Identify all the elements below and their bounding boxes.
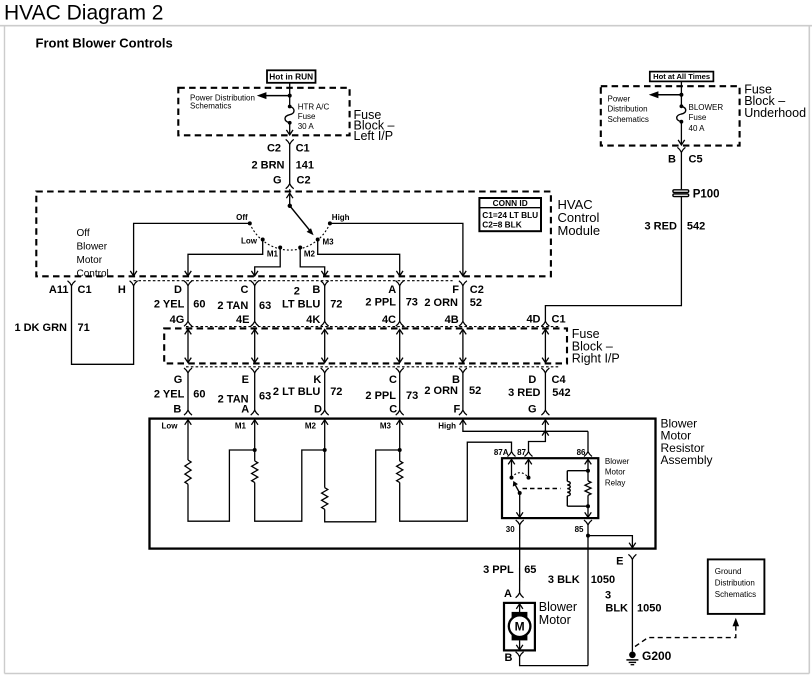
svg-text:G: G (528, 404, 537, 416)
svg-text:C2: C2 (297, 174, 311, 186)
wire 63: 2 TAN (module to fuse block) (254, 286, 256, 322)
svg-text:F: F (453, 404, 460, 416)
svg-text:C2=8 BLK: C2=8 BLK (482, 219, 521, 229)
resistor R-m2 (324, 420, 326, 488)
svg-text:C1: C1 (78, 284, 92, 296)
svg-text:A: A (504, 588, 512, 600)
svg-text:H: H (118, 284, 126, 296)
svg-text:High: High (438, 422, 456, 431)
svg-text:Fuse: Fuse (689, 113, 707, 122)
svg-text:A: A (241, 404, 249, 416)
contact M2 (298, 246, 302, 250)
connector pin A (396, 281, 404, 286)
svg-text:B: B (452, 374, 460, 386)
node M3 junction (398, 448, 402, 452)
connector pin E (assembly ground out) (628, 554, 636, 559)
svg-text:3 PPL: 3 PPL (483, 564, 514, 576)
wire 1050: 3 BLK from relay 85 (587, 525, 589, 666)
pass-through wire in fuse block at x=399.7 (399, 329, 401, 362)
Ground Distribution Schematics box (708, 559, 765, 614)
connector pin A11 / C1 (68, 281, 76, 286)
relay coil resistor (585, 459, 592, 464)
svg-text:30: 30 (506, 525, 515, 534)
resistor R-m3 (399, 420, 401, 461)
svg-text:Low: Low (162, 422, 179, 431)
svg-text:3 BLK: 3 BLK (548, 574, 580, 586)
contact Off (248, 221, 252, 225)
svg-text:2 ORN: 2 ORN (424, 297, 458, 309)
svg-text:2 BRN: 2 BRN (251, 160, 284, 172)
svg-text:2: 2 (294, 286, 300, 298)
svg-text:Hot in RUN: Hot in RUN (269, 72, 313, 82)
svg-text:Fuse: Fuse (298, 112, 316, 121)
svg-text:G: G (273, 174, 282, 186)
dashed reference link to ground distribution (635, 626, 736, 647)
Hot at All Times box (650, 72, 714, 82)
svg-text:40 A: 40 A (689, 124, 706, 133)
wire 60: 2 YEL (fuse block to resistor pin B) (187, 373, 189, 410)
svg-text:M2: M2 (305, 422, 317, 431)
svg-text:2 PPL: 2 PPL (365, 297, 396, 309)
svg-text:BLK: BLK (605, 603, 628, 615)
fuse block right I/P connector boundary (top) (186, 326, 560, 328)
wire: Hot at All Times feed (680, 81, 682, 94)
connector pin C (251, 281, 259, 286)
wire: arrow to Power Distribution Schematics (261, 95, 290, 97)
svg-text:B: B (668, 153, 676, 165)
svg-text:73: 73 (406, 390, 418, 402)
svg-text:4D: 4D (526, 314, 540, 326)
pass-through wire in fuse block at x=324.7 (324, 329, 326, 362)
terminal Low entering assembly (185, 420, 192, 425)
svg-text:2 ORN: 2 ORN (424, 385, 458, 397)
fuse F1 HTR A/C 30 A (289, 96, 291, 107)
svg-text:72: 72 (330, 386, 342, 398)
svg-text:542: 542 (687, 220, 705, 232)
svg-text:87: 87 (517, 448, 526, 457)
node: underhood bus junction (679, 93, 683, 97)
connector C1 pin C2 of fuse block (286, 139, 294, 144)
connector pin B (fuse block out) (459, 368, 467, 373)
connector pin B (321, 281, 329, 286)
svg-text:2 YEL: 2 YEL (154, 388, 185, 400)
wire: M3 resistor to relay 87A (400, 442, 512, 521)
Hot in RUN box (267, 70, 316, 83)
svg-text:4E: 4E (236, 314, 249, 326)
wire 542: 3 RED from P100 to fuse block right I/P (545, 197, 681, 321)
svg-text:2 YEL: 2 YEL (154, 298, 185, 310)
svg-text:B: B (173, 404, 181, 416)
svg-text:Distribution: Distribution (608, 105, 648, 114)
relay switch arm (518, 491, 522, 495)
svg-text:87A: 87A (494, 448, 509, 457)
svg-text:Right I/P: Right I/P (572, 352, 620, 366)
svg-text:BLOWER: BLOWER (689, 103, 724, 112)
resistor R-low (187, 420, 189, 460)
svg-text:G200: G200 (642, 649, 672, 663)
svg-text:Off: Off (236, 213, 248, 222)
svg-text:Power: Power (608, 94, 631, 103)
svg-text:Motor: Motor (605, 468, 626, 477)
wire 52: 2 ORN (module to fuse block) (462, 286, 464, 322)
module connector C1 boundary (134, 280, 453, 282)
svg-text:F: F (452, 284, 459, 296)
relay actuation link (dashed) (523, 488, 561, 490)
svg-text:3 RED: 3 RED (508, 387, 540, 399)
wire: Off contact to pin H (134, 223, 250, 276)
relay contact arc (dashed) (512, 473, 529, 478)
wire: fuse output exits left I/P block (289, 123, 291, 135)
terminal M2 entering assembly (321, 420, 328, 425)
blower motor relay outline (502, 458, 598, 518)
svg-text:C2: C2 (470, 284, 484, 296)
svg-text:B: B (312, 284, 320, 296)
wire 73: 2 PPL (module to fuse block) (399, 286, 401, 322)
svg-text:3: 3 (605, 590, 611, 602)
svg-text:K: K (313, 374, 321, 386)
wire 73: 2 PPL (fuse block to resistor pin C) (399, 373, 401, 410)
pass-through wire in fuse block at x=254.7 (254, 329, 256, 362)
wire: arrow to Power Distribution Schematics (underhood) (654, 94, 681, 96)
wire 63: 2 TAN (fuse block to resistor pin A) (254, 373, 256, 410)
connector pin A of blower motor (516, 593, 524, 598)
svg-text:Relay: Relay (605, 478, 625, 487)
svg-text:Motor: Motor (539, 613, 571, 627)
contact M3 (316, 238, 320, 242)
fuse F2 BLOWER 40 A (680, 95, 682, 107)
wire: M3 contact to pin A (318, 240, 400, 276)
switch contact arc (dashed) (250, 223, 330, 250)
svg-text:542: 542 (552, 387, 570, 399)
svg-text:Schematics: Schematics (190, 102, 231, 111)
svg-text:73: 73 (406, 297, 418, 309)
svg-text:Schematics: Schematics (608, 115, 649, 124)
svg-text:C1: C1 (296, 142, 310, 154)
svg-text:4K: 4K (306, 314, 320, 326)
svg-text:Underhood: Underhood (744, 106, 806, 120)
wire: M1 resistor to M2 junction (255, 450, 325, 521)
svg-text:2 LT BLU: 2 LT BLU (273, 386, 321, 398)
svg-text:2 TAN: 2 TAN (217, 300, 248, 312)
relay coil (566, 471, 568, 482)
connector pin H (130, 281, 138, 286)
wire: M2 resistor to M3 junction (325, 450, 400, 522)
svg-text:4G: 4G (170, 314, 185, 326)
wire: M1 contact to pin C (255, 248, 281, 276)
node coil bottom (586, 504, 590, 508)
svg-text:A11: A11 (49, 284, 69, 296)
svg-text:Left I/P: Left I/P (354, 129, 394, 143)
svg-text:1 DK GRN: 1 DK GRN (14, 322, 67, 334)
node M1 junction (253, 448, 257, 452)
svg-text:C5: C5 (689, 153, 703, 165)
svg-text:D: D (528, 374, 536, 386)
wire 542: 3 RED (fuse block to resistor pin G) (544, 373, 546, 410)
connector C5 pin B (677, 147, 685, 152)
svg-text:71: 71 (78, 322, 90, 334)
svg-text:Blower: Blower (77, 242, 108, 253)
wire: low resistor to M1 junction (188, 450, 255, 521)
svg-text:M1: M1 (267, 249, 279, 258)
wire: module feed entering at pin G (286, 193, 293, 198)
svg-text:Front Blower Controls: Front Blower Controls (36, 36, 173, 51)
svg-text:CONN ID: CONN ID (493, 198, 528, 208)
connector pin F / C2 (459, 281, 467, 286)
svg-text:C4: C4 (552, 374, 567, 386)
svg-text:C: C (241, 284, 249, 296)
svg-text:72: 72 (330, 299, 342, 311)
terminal M1 entering assembly (251, 420, 258, 425)
blower motor symbol (516, 604, 523, 609)
node M2 junction (323, 448, 327, 452)
ground G200 (629, 652, 636, 659)
svg-text:Schematics: Schematics (715, 590, 756, 599)
svg-text:52: 52 (470, 297, 482, 309)
relay contact 87A (508, 459, 515, 464)
relay terminal 85 (584, 520, 592, 525)
connector pin D / C4 (fuse block out) (541, 368, 549, 373)
pass-through wire in fuse block at x=462.9 (462, 329, 464, 362)
relay switch to terminal 30 (519, 493, 521, 517)
svg-text:Distribution: Distribution (715, 578, 755, 587)
wire to P100 (680, 152, 682, 189)
svg-text:85: 85 (575, 525, 584, 534)
blower motor resistor assembly outline (150, 419, 656, 549)
svg-text:M3: M3 (380, 422, 392, 431)
svg-text:D: D (174, 284, 182, 296)
terminal M3 entering assembly (396, 420, 403, 425)
wire 65: 3 PPL from relay 30 to blower motor A (519, 525, 521, 593)
svg-text:E: E (242, 374, 249, 386)
svg-text:M2: M2 (304, 249, 316, 258)
svg-text:E: E (616, 556, 623, 568)
svg-text:4B: 4B (445, 314, 459, 326)
CONN ID table (479, 198, 541, 231)
svg-text:2 PPL: 2 PPL (365, 390, 396, 402)
node coil top (586, 469, 590, 473)
connector pin D (184, 281, 192, 286)
blower switch arm to M3 (290, 206, 311, 232)
wire: High contact to pin F (330, 223, 463, 276)
svg-text:Blower: Blower (605, 457, 630, 466)
content frame (0, 25, 812, 27)
contact M1 (278, 246, 282, 250)
wire: M2 contact to pin B (300, 248, 325, 276)
svg-text:A: A (388, 284, 396, 296)
terminal G entering assembly (3 RED) (542, 420, 549, 425)
svg-text:Control: Control (77, 268, 109, 279)
contact High (328, 221, 332, 225)
svg-text:4C: 4C (382, 314, 396, 326)
svg-text:63: 63 (259, 300, 271, 312)
connector pin B of blower motor (516, 652, 524, 657)
connector pin C (fuse block out) (396, 368, 404, 373)
blower switch pivot (288, 204, 292, 208)
wire: Low contact to pin D (188, 240, 263, 276)
svg-text:Blower: Blower (539, 600, 577, 614)
svg-text:P100: P100 (693, 188, 720, 200)
wire: splice to assembly ground pin E (588, 536, 632, 548)
fuse block - left I/P dashed outline (178, 88, 349, 136)
wire 72: 2 LT BLU (fuse block to resistor pin D) (324, 373, 326, 410)
svg-text:High: High (332, 213, 350, 222)
wire: blower motor B to ground splice (520, 657, 588, 666)
svg-text:1050: 1050 (591, 574, 615, 586)
blower motor M1 outline (504, 603, 535, 651)
terminal High entering assembly (460, 420, 467, 425)
svg-text:HTR A/C: HTR A/C (298, 102, 330, 111)
svg-text:C2: C2 (267, 142, 281, 154)
svg-text:60: 60 (193, 388, 205, 400)
resistor R-m1 (254, 420, 256, 461)
connector pin K (fuse block out) (321, 368, 329, 373)
pass-through wire in fuse block at x=545.4 (544, 329, 546, 362)
node: left I/P bus junction (288, 94, 292, 98)
svg-text:M1: M1 (235, 422, 247, 431)
svg-text:Low: Low (241, 237, 258, 246)
svg-text:G: G (174, 374, 183, 386)
node: 85 / ground splice (586, 534, 590, 538)
wire: Hot in RUN feed (289, 83, 291, 96)
svg-text:30 A: 30 A (298, 122, 315, 131)
svg-text:Off: Off (77, 228, 90, 239)
svg-text:86: 86 (577, 448, 586, 457)
svg-text:M: M (515, 620, 525, 634)
connector pin G (fuse block out) (184, 368, 192, 373)
svg-text:LT BLU: LT BLU (282, 299, 320, 311)
fuse block - underhood dashed outline (601, 86, 740, 145)
svg-text:60: 60 (193, 298, 205, 310)
wire 52: 2 ORN (fuse block to resistor pin F) (462, 373, 464, 410)
svg-text:Motor: Motor (77, 255, 103, 266)
wire: fuse output exits underhood block (680, 122, 682, 145)
svg-text:3 RED: 3 RED (644, 220, 676, 232)
svg-text:65: 65 (524, 564, 536, 576)
svg-text:Hot at All Times: Hot at All Times (653, 72, 710, 81)
svg-text:63: 63 (259, 391, 271, 403)
contact Low (261, 238, 265, 242)
wire: High to relay feed bus (463, 420, 588, 432)
svg-text:141: 141 (296, 160, 314, 172)
inline connector P100 (673, 190, 689, 193)
svg-text:C: C (389, 374, 397, 386)
fuse block right I/P connector boundary (bottom) (186, 366, 560, 368)
wire 1050: 3 BLK to G200 (631, 559, 633, 651)
svg-text:C1: C1 (552, 314, 566, 326)
svg-text:D: D (314, 404, 322, 416)
svg-text:1050: 1050 (637, 603, 661, 615)
pass-through wire in fuse block at x=188.0 (187, 329, 189, 362)
wire 72: 2 LT BLU (module to fuse block) (324, 286, 326, 322)
svg-text:Module: Module (558, 223, 601, 238)
svg-text:52: 52 (469, 385, 481, 397)
svg-text:C: C (389, 404, 397, 416)
svg-text:M3: M3 (323, 238, 335, 247)
wire 71: 1 DK GRN loop A11 to H (72, 286, 134, 365)
wire 60: 2 YEL (module to fuse block) (187, 286, 189, 322)
relay contact 87 (525, 459, 532, 464)
wire: feed bus to relay 86 (587, 431, 589, 451)
connector pin E (fuse block out) (251, 368, 259, 373)
wire 141: 2 BRN (289, 144, 291, 184)
HVAC control module dashed outline (36, 192, 551, 277)
fuse block right I/P dashed outline (164, 328, 567, 363)
svg-text:HVAC Diagram 2: HVAC Diagram 2 (4, 2, 164, 25)
svg-text:Assembly: Assembly (661, 453, 713, 467)
svg-text:Ground: Ground (715, 567, 742, 576)
svg-text:B: B (505, 652, 513, 664)
relay terminal 30 (516, 520, 524, 525)
wire: feed bus down to relay 87 (529, 431, 546, 451)
